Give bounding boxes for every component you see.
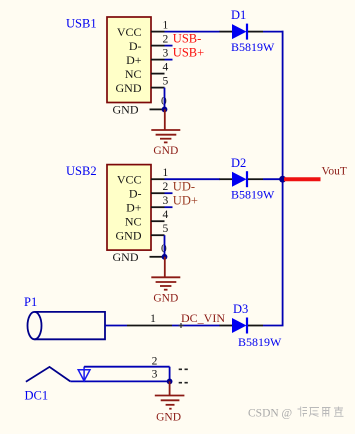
svg-text:CSDN @: CSDN @ [248,408,292,420]
svg-text:2: 2 [152,355,158,367]
P1 barrel body [28,312,42,339]
VouT power wire (thick red) [284,177,321,181]
wire pin2 down to pin3 [169,367,171,382]
P1 pin lead [105,325,127,327]
ground bar 3 [160,138,171,140]
svg-text:USB+: USB+ [173,46,204,60]
tip contact chevron [26,367,70,382]
ground bar 2 [156,281,177,283]
pin 3 rail [70,380,169,382]
diode D2 [220,156,276,202]
pin 1 [151,31,165,33]
pin 1 [151,178,165,180]
wire pin2 stub [165,192,173,194]
ground stem [169,381,171,395]
USB1 connector [66,17,169,117]
wire pin2 stub [165,45,173,47]
svg-text:5: 5 [163,76,169,88]
no-connect dashes pin3 [179,382,188,384]
diode D3 [220,302,283,349]
svg-text:D2: D2 [231,156,246,170]
ground bar 4 [169,408,171,410]
junction DC1 [167,379,173,385]
svg-text:3: 3 [163,195,169,207]
svg-text:2: 2 [163,34,169,46]
watermark CSDN [248,407,344,420]
wire D1 cathode to bus corner [263,31,284,33]
pin 0 (shield) [150,256,165,258]
USB1 body [107,17,151,103]
ground bar 3 [160,285,171,287]
svg-text:4: 4 [163,209,169,221]
ground bar 2 [161,399,180,401]
junction USB1 pin0 [162,107,168,113]
watermark CJK glyph blocks [298,407,344,417]
D3 triangle [232,318,247,333]
svg-text:3: 3 [152,369,158,381]
ground bar 2 [156,134,177,136]
ground bar 1 [155,395,185,397]
svg-text:P1: P1 [24,295,37,309]
D3 cathode pin [248,325,263,327]
D1 cathode bar [246,24,248,40]
svg-text:D-: D- [129,39,142,53]
P1 pin 1 [127,325,172,327]
pin 4 [151,220,165,222]
wire pin3 stub [165,59,173,61]
svg-text:D1: D1 [231,8,246,22]
pin 2 [151,45,165,47]
svg-text:NC: NC [125,67,142,81]
wire pin3 stub [165,206,173,208]
diode D1 [220,8,276,54]
ground power port (USB1) [151,109,180,157]
svg-text:1: 1 [163,167,169,179]
pin 2 [151,192,165,194]
D1 cathode pin [248,31,263,33]
svg-text:D+: D+ [126,201,142,215]
D2 anode pin [220,178,233,180]
svg-text:VouT: VouT [322,165,347,177]
svg-text:B5819W: B5819W [238,335,282,349]
DC jack DC1 [25,355,188,402]
svg-text:GND: GND [113,250,139,264]
svg-text:UD+: UD+ [173,193,198,207]
svg-text:5: 5 [163,223,169,235]
pin 5 [151,87,165,89]
ground power port (DC1) [155,381,185,423]
D2 cathode bar [246,171,248,187]
svg-text:USB1: USB1 [66,17,97,31]
sleeve contact triangle [78,370,90,381]
ground bar 1 [151,276,180,278]
USB2 connector [66,164,169,264]
svg-text:D+: D+ [126,53,142,67]
svg-text:NC: NC [125,215,142,229]
USB2 body [107,165,151,251]
ground bar 4 [164,141,168,143]
svg-text:VCC: VCC [117,25,142,39]
svg-text:B5819W: B5819W [231,188,275,202]
sleeve contact bar [83,367,85,382]
svg-text:VCC: VCC [117,173,142,187]
ground stem [164,257,166,278]
D3 cathode bar [246,318,248,334]
wire USB1 pin1 to D1 anode [165,31,221,33]
pin 5 [151,234,165,236]
svg-text:DC1: DC1 [25,389,49,403]
pin 4 [151,73,165,75]
net label anchor cross [179,323,184,328]
svg-text:GND: GND [153,145,178,157]
svg-text:2: 2 [163,181,169,193]
svg-text:USB-: USB- [173,32,201,46]
wire USB2 pin5 down to pin0 [164,235,166,257]
svg-text:GND: GND [116,81,142,95]
svg-text:DC_VIN: DC_VIN [181,311,225,325]
svg-text:1: 1 [163,20,169,32]
D1 anode pin [220,31,233,33]
pin 2 rail [84,366,170,368]
no-connect dashes pin2 [179,368,188,370]
wire USB2 pin1 to D2 anode [165,178,221,180]
D2 triangle [232,172,247,187]
ground power port (USB2) [151,257,180,305]
svg-text:1: 1 [150,313,156,325]
svg-text:GND: GND [116,229,142,243]
junction USB2 pin0 [162,254,168,260]
wire D3 cathode to bus [263,325,284,327]
D2 cathode pin [248,178,263,180]
pin 0 (shield) [150,108,165,110]
vertical bus wire [282,31,284,325]
ground stem [164,109,166,130]
junction at bus [279,176,286,183]
connector P1 [24,295,172,339]
ground bar 1 [151,129,180,131]
pin 3 [151,206,165,208]
pin 3 [151,59,165,61]
svg-text:GND: GND [156,412,181,424]
ground bar 3 [166,404,175,406]
svg-text:D3: D3 [233,302,248,316]
svg-text:USB2: USB2 [66,164,97,178]
svg-text:3: 3 [163,48,169,60]
svg-text:D-: D- [129,187,142,201]
svg-text:GND: GND [153,292,178,304]
wire D2 cathode to bus [263,178,283,180]
wire USB1 pin5 down to pin0 [164,88,166,110]
svg-text:4: 4 [163,62,169,74]
wire P1 to D3 anode [172,325,220,327]
svg-text:B5819W: B5819W [231,40,275,54]
ground bar 4 [164,289,168,291]
svg-text:GND: GND [113,103,139,117]
D1 triangle [232,24,247,39]
D3 anode pin [220,325,233,327]
svg-text:UD-: UD- [173,179,195,193]
